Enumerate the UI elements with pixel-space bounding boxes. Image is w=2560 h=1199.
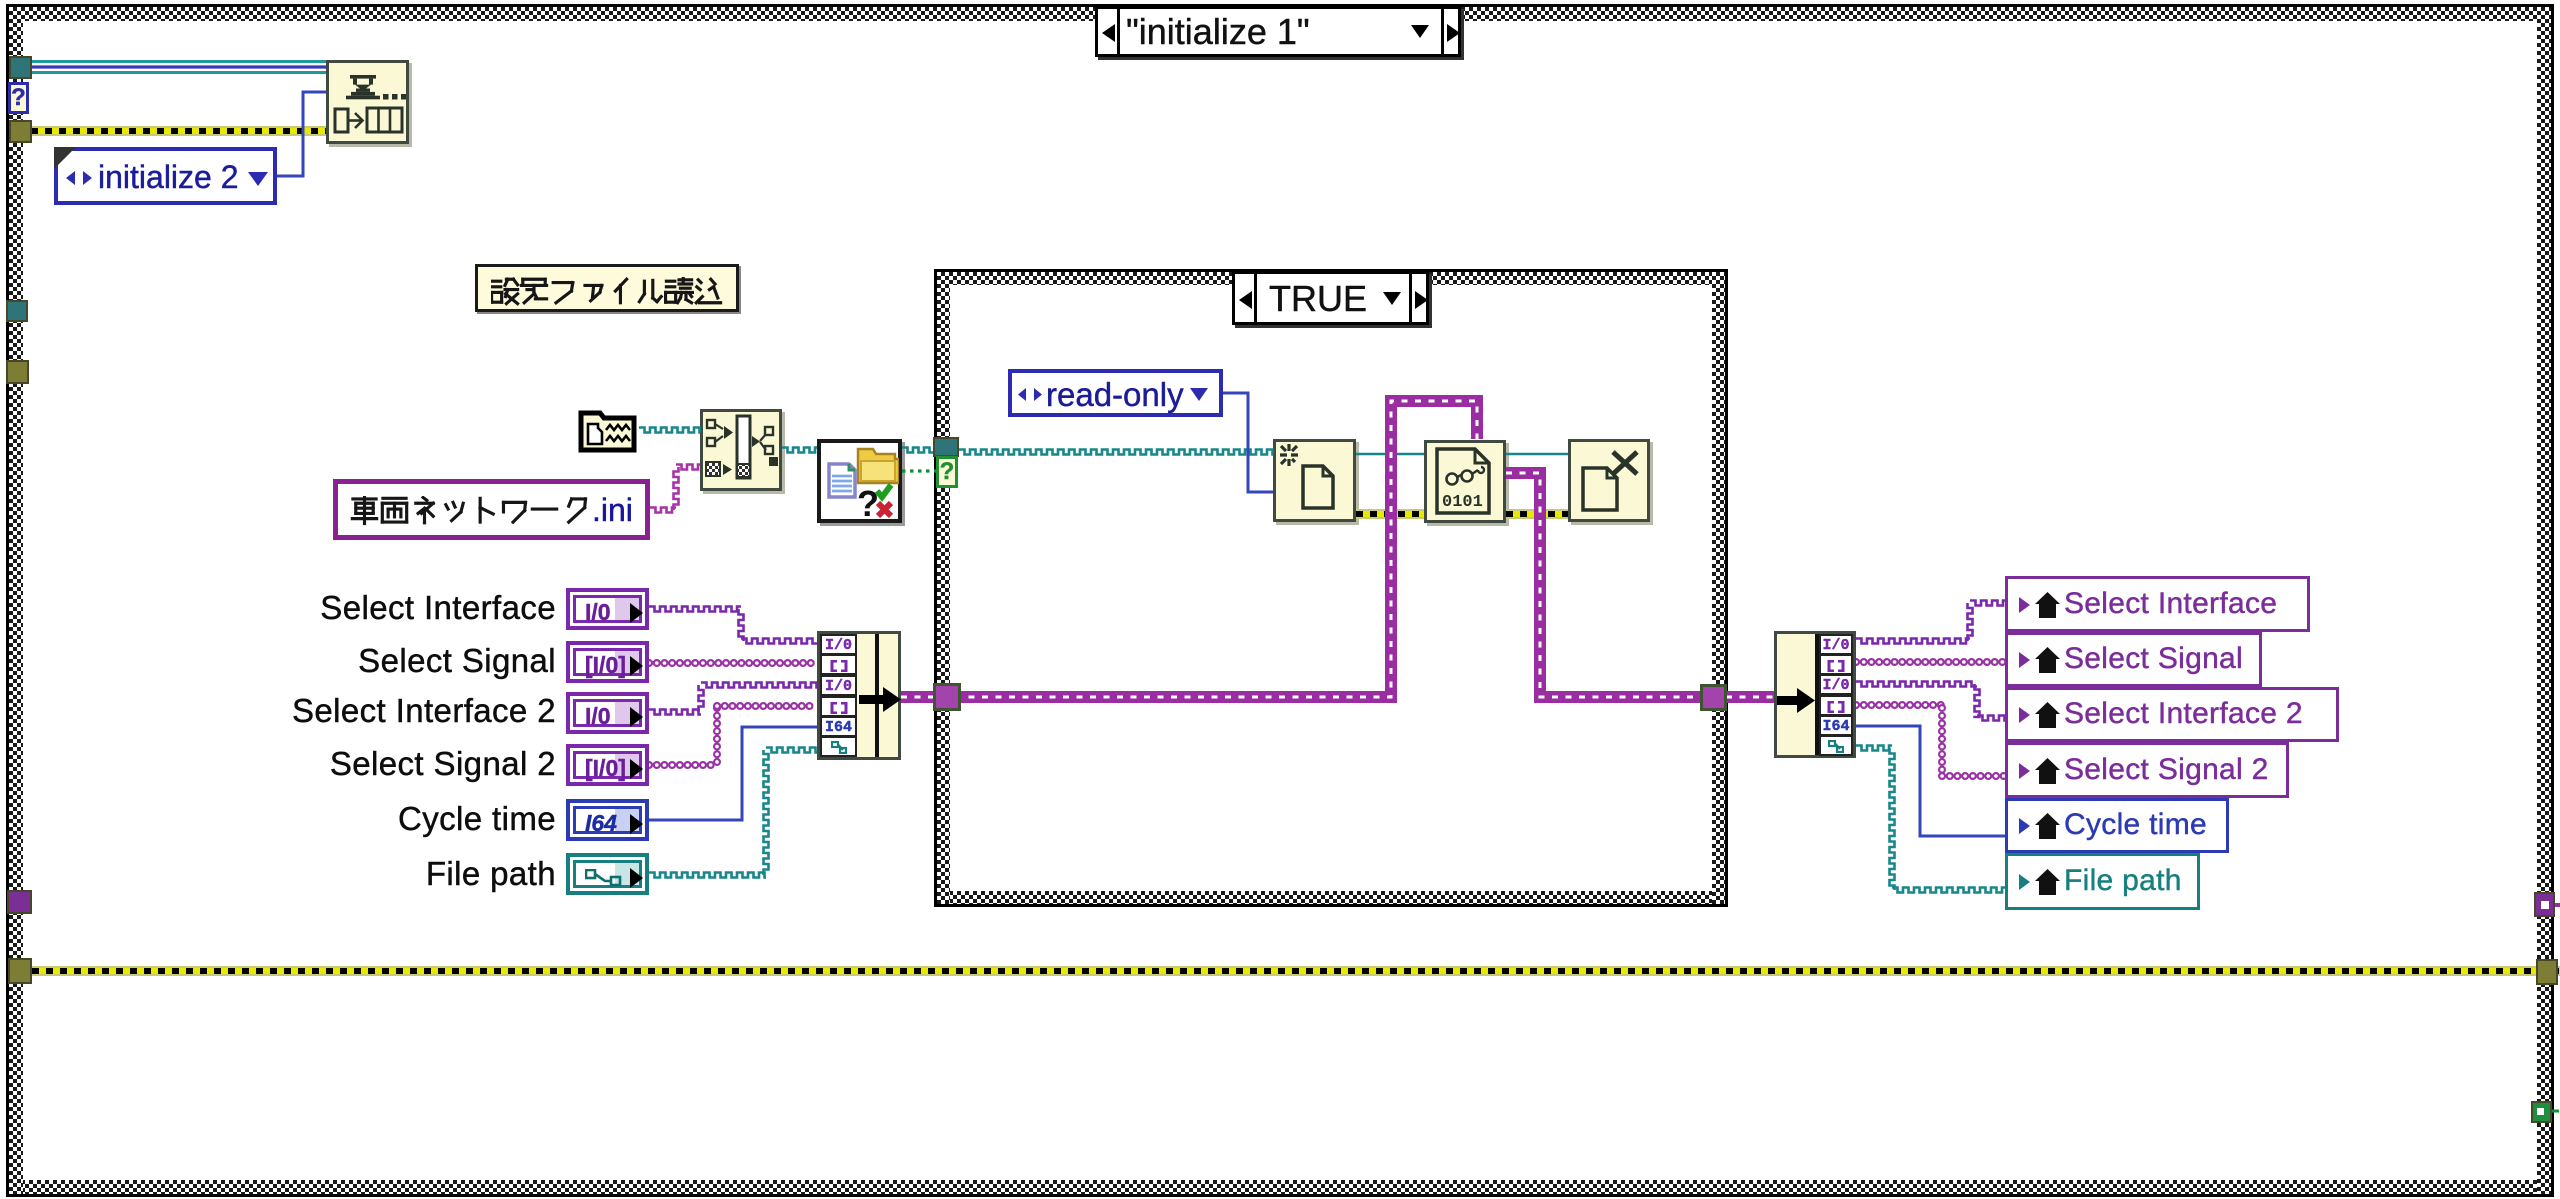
tunnel: cluster out (inner case right) bbox=[1700, 684, 1727, 711]
wire: VI path constant to build-path VI (teal zigzag) bbox=[639, 428, 700, 433]
tunnel: queue refnum (outer left) bbox=[9, 56, 32, 79]
local variable Select Interface 2 bbox=[2005, 687, 2339, 742]
local variable Cycle time bbox=[2005, 798, 2229, 853]
label Select Interface bbox=[156, 589, 556, 629]
wire: error cluster from left tunnel to Obtain Queue VI bbox=[31, 126, 326, 136]
bundle by name node bbox=[817, 631, 901, 760]
local variable File path bbox=[2005, 853, 2200, 910]
wire: enum initialize 2 to Obtain Queue VI (blue) bbox=[277, 92, 326, 176]
free label 設定ファイル読込 bbox=[475, 264, 739, 312]
inner case structure frame (TRUE case) bbox=[934, 269, 1728, 907]
label File path bbox=[156, 855, 556, 895]
label Select Interface 2 bbox=[156, 692, 556, 732]
close file VI bbox=[1568, 439, 1650, 522]
wire: build-path VI to open config icon (teal zigzag) bbox=[782, 448, 817, 453]
open config data VI bbox=[817, 439, 902, 523]
wire: bundled cluster main run (purple dashed) bbox=[901, 401, 1477, 697]
tunnel: error in (outer left top) bbox=[9, 120, 32, 143]
open/create file VI bbox=[1273, 439, 1356, 522]
wire: read-only enum to open file icon (blue) bbox=[1223, 393, 1273, 492]
wire: string constant to build-path VI (pink zigzag) bbox=[650, 508, 676, 513]
tunnel: unused purple (outer left) bbox=[7, 890, 32, 914]
wire: config refnum inside inner case (teal) bbox=[959, 450, 1273, 455]
wire: unbundle outputs to local variables bbox=[1856, 639, 1970, 644]
outer case selector label "initialize 1" bbox=[1095, 6, 1461, 57]
string constant 車両ネットワーク.ini bbox=[333, 479, 650, 540]
enum constant "read-only" bbox=[1008, 369, 1223, 417]
wire: Cycle time to bundle (blue I64) bbox=[649, 727, 817, 820]
terminal Select Signal 2 bbox=[566, 744, 649, 786]
local variable Select Interface bbox=[2005, 576, 2310, 632]
wire: long error cluster bottom bbox=[32, 966, 2560, 976]
wire: Select Signal 2 to bundle (cluster-array chain) bbox=[649, 761, 717, 769]
terminal Select Interface 2 bbox=[566, 692, 649, 734]
tunnel: unused teal (outer left) bbox=[6, 300, 28, 322]
wire: Select Interface 2 to bundle (purple zigzag) bbox=[649, 710, 701, 715]
tunnel: inner case selector ? terminal bbox=[936, 456, 958, 488]
wire: File path to bundle (teal zigzag) bbox=[649, 873, 766, 878]
tunnel: error out (outer right) bbox=[2536, 959, 2558, 985]
enum constant "initialize 2" bbox=[54, 147, 277, 205]
label Select Signal 2 bbox=[156, 745, 556, 785]
wire: error cluster between file icons bbox=[1356, 509, 1424, 519]
local variable Select Signal bbox=[2005, 632, 2262, 687]
terminal File path bbox=[566, 853, 649, 895]
tunnel: unused olive (outer left) bbox=[6, 360, 29, 384]
terminal Select Signal bbox=[566, 641, 649, 683]
inner case selector label "TRUE" bbox=[1232, 271, 1429, 325]
unbundle by name node bbox=[1774, 631, 1856, 758]
wire: boolean file-exists dotted green to ? tunnel bbox=[902, 469, 936, 472]
Obtain Queue VI icon bbox=[326, 60, 409, 144]
wire: open config icon to inner case teal tunnel bbox=[902, 448, 936, 453]
tunnel: cluster in (inner case left) bbox=[933, 683, 961, 711]
terminal Cycle time bbox=[566, 799, 649, 841]
path constant (Current VI path) bbox=[578, 408, 639, 455]
wire: queue refnum from left tunnel to Obtain Queue VI bbox=[31, 60, 326, 63]
read key (0101) VI bbox=[1424, 440, 1506, 523]
tunnel: unused green out (outer right) bbox=[2531, 1101, 2552, 1123]
wire: Select Interface to bundle (purple zigzag) bbox=[649, 607, 741, 612]
tunnel: outer case selector ? terminal bbox=[8, 82, 29, 114]
terminal Select Interface bbox=[566, 588, 649, 630]
tunnel: unused purple out (outer right) bbox=[2534, 892, 2555, 917]
label Select Signal bbox=[156, 642, 556, 682]
wire: Select Signal to bundle (cluster-array chain) bbox=[649, 659, 817, 667]
label Cycle time bbox=[156, 800, 556, 840]
tunnel: error bottom (outer left) bbox=[8, 958, 32, 984]
build config path VI bbox=[700, 409, 782, 491]
tunnel: config refnum in (inner case left) bbox=[933, 437, 959, 457]
local variable Select Signal 2 bbox=[2005, 742, 2289, 798]
wire stubs at right border bbox=[2555, 903, 2560, 907]
